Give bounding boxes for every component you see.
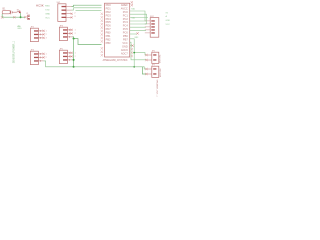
svg-text:PC2: PC2	[123, 17, 129, 21]
svg-text:PC0: PC0	[123, 10, 129, 14]
IC top right unconnected pin marks	[131, 1, 133, 6]
svg-text:2: 2	[46, 34, 47, 36]
svg-text:PB1: PB1	[106, 34, 111, 38]
svg-text:PB3: PB3	[106, 41, 111, 45]
svg-text:2: 2	[46, 57, 47, 59]
wire IC to SV2 pin1	[130, 20, 146, 22]
svg-text:PC4: PC4	[123, 24, 129, 28]
svg-text:TXD: TXD	[45, 9, 50, 11]
wire SV1.2 to IC TXD	[72, 8, 102, 10]
connector JP5 3-pin bottom-right	[59, 49, 75, 64]
wire SV2 pin2 link	[145, 17, 147, 24]
svg-text:PB7: PB7	[123, 38, 128, 42]
connector JP7 2-pin lower	[145, 64, 162, 97]
wire IC to SV2 pin2	[130, 23, 146, 25]
connector SV2 5-pin	[145, 16, 159, 37]
svg-text:PC5: PC5	[123, 27, 129, 31]
svg-text:GND: GND	[122, 44, 128, 48]
connector SV1 serial 4-pin	[57, 2, 76, 21]
svg-text:3: 3	[74, 16, 75, 18]
svg-text:PC3: PC3	[123, 20, 129, 24]
junction node	[20, 16, 22, 18]
IC bottom right unconnected pin marks	[131, 48, 133, 57]
IC U1 right pin names	[121, 3, 129, 55]
wire switch down	[20, 13, 22, 17]
wire row3 to IC	[76, 9, 102, 11]
wire SV1.1 to IC RXD	[72, 5, 102, 6]
connector JP2 3-pin top-left	[30, 27, 46, 42]
svg-text:1: 1	[46, 30, 47, 32]
svg-text:MOTOR2: MOTOR2	[160, 68, 162, 77]
svg-text:SENSOR_POWER_1: SENSOR_POWER_1	[13, 40, 15, 63]
ground	[17, 24, 20, 27]
wire IC row down to bottom net	[130, 39, 135, 67]
svg-text:RXD: RXD	[45, 5, 50, 7]
svg-text:VCC: VCC	[45, 17, 50, 19]
svg-text:2: 2	[74, 13, 75, 15]
svg-text:GND: GND	[166, 20, 171, 22]
wire branch to JP7 pin2	[142, 67, 146, 74]
svg-text:PD7: PD7	[106, 27, 112, 31]
svg-text:1: 1	[75, 52, 76, 54]
svg-text:1: 1	[46, 53, 47, 55]
pin mark JP1	[24, 16, 26, 18]
svg-text:PD5: PD5	[106, 20, 112, 24]
wire IC row stub	[130, 45, 133, 47]
svg-text:PD3: PD3	[106, 13, 112, 17]
wire vertical bus down	[73, 39, 75, 67]
svg-text:PB6: PB6	[123, 34, 128, 38]
battery B1	[2, 10, 13, 14]
wire IC right row2	[130, 14, 147, 17]
wire JP5 pin3 to bus	[73, 59, 74, 61]
svg-text:PD2: PD2	[106, 10, 112, 14]
svg-text:PC6: PC6	[123, 31, 129, 35]
svg-text:PC1: PC1	[123, 13, 129, 17]
wire IC row to JP6 pin2	[130, 42, 147, 60]
IC U1 left pin names	[106, 3, 112, 45]
wire JP3 pin3 to IC left pin	[73, 37, 102, 45]
pin mark SV1.3	[71, 13, 73, 15]
svg-text:3: 3	[46, 37, 47, 39]
junction node	[133, 52, 135, 54]
svg-text:2: 2	[75, 56, 76, 58]
junction node JP5	[73, 59, 75, 61]
wire bottom net to JP7 pin1	[74, 67, 147, 69]
wire IC short row with pin mark	[130, 33, 137, 35]
wire IC right row3	[130, 17, 148, 19]
svg-text:PD0: PD0	[106, 3, 112, 7]
wire battery minus down	[1, 14, 3, 17]
wire IC to SV2 pin3	[130, 26, 146, 28]
svg-text:PD6: PD6	[106, 24, 112, 28]
connector JP3 3-pin top-right	[59, 26, 75, 41]
pin mark on wire	[13, 16, 15, 18]
svg-text:HC3K: HC3K	[36, 4, 44, 8]
switch S1	[14, 11, 21, 13]
svg-text:GND: GND	[45, 13, 50, 15]
connector JP6 2-pin upper	[145, 50, 161, 63]
svg-text:GND: GND	[17, 28, 22, 30]
svg-text:PB0: PB0	[106, 31, 111, 35]
pin mark end of short row	[136, 32, 138, 34]
svg-text:SPEAKER_OUT_1: SPEAKER_OUT_1	[156, 80, 159, 98]
svg-text:AVCC: AVCC	[121, 6, 128, 10]
svg-text:2: 2	[75, 33, 76, 35]
wire JP4 pin3 to bottom net	[44, 61, 74, 67]
pin mark battery minus	[1, 16, 3, 18]
pin mark stub end	[131, 44, 133, 46]
svg-text:PD1: PD1	[106, 6, 112, 10]
svg-text:VCC: VCC	[166, 24, 171, 26]
wire IC to SV2 pin4	[130, 30, 146, 32]
svg-text:ADC7: ADC7	[121, 51, 128, 55]
IC U1 microcontroller	[103, 3, 130, 62]
wire branch to JP6 pin1	[134, 53, 146, 55]
green label column right	[166, 12, 171, 25]
svg-text:ATMEGA168_JOYSTICK: ATMEGA168_JOYSTICK	[103, 59, 128, 62]
connector JP4 3-pin bottom-left	[30, 50, 46, 65]
svg-text:VCC: VCC	[122, 41, 128, 45]
wire IC right row1	[130, 11, 145, 14]
wire bottom horizontal	[2, 16, 20, 18]
pin mark SV1.4	[71, 16, 73, 18]
svg-text:PD4: PD4	[106, 17, 112, 21]
svg-text:PB2: PB2	[106, 38, 111, 42]
svg-text:AREF: AREF	[121, 3, 128, 7]
svg-text:1: 1	[75, 29, 76, 31]
junction node JP3	[73, 38, 75, 40]
svg-text:MOTOR1: MOTOR1	[160, 54, 162, 63]
wire SV2 pin1 link	[144, 14, 146, 21]
svg-text:ADC6: ADC6	[121, 48, 128, 52]
junction node bottom vertical	[133, 66, 135, 68]
IC left unconnected pin marks	[101, 13, 103, 57]
wire junction to power connector	[21, 16, 25, 18]
junction node bottom	[73, 66, 75, 68]
connector JP1 power	[28, 15, 30, 20]
